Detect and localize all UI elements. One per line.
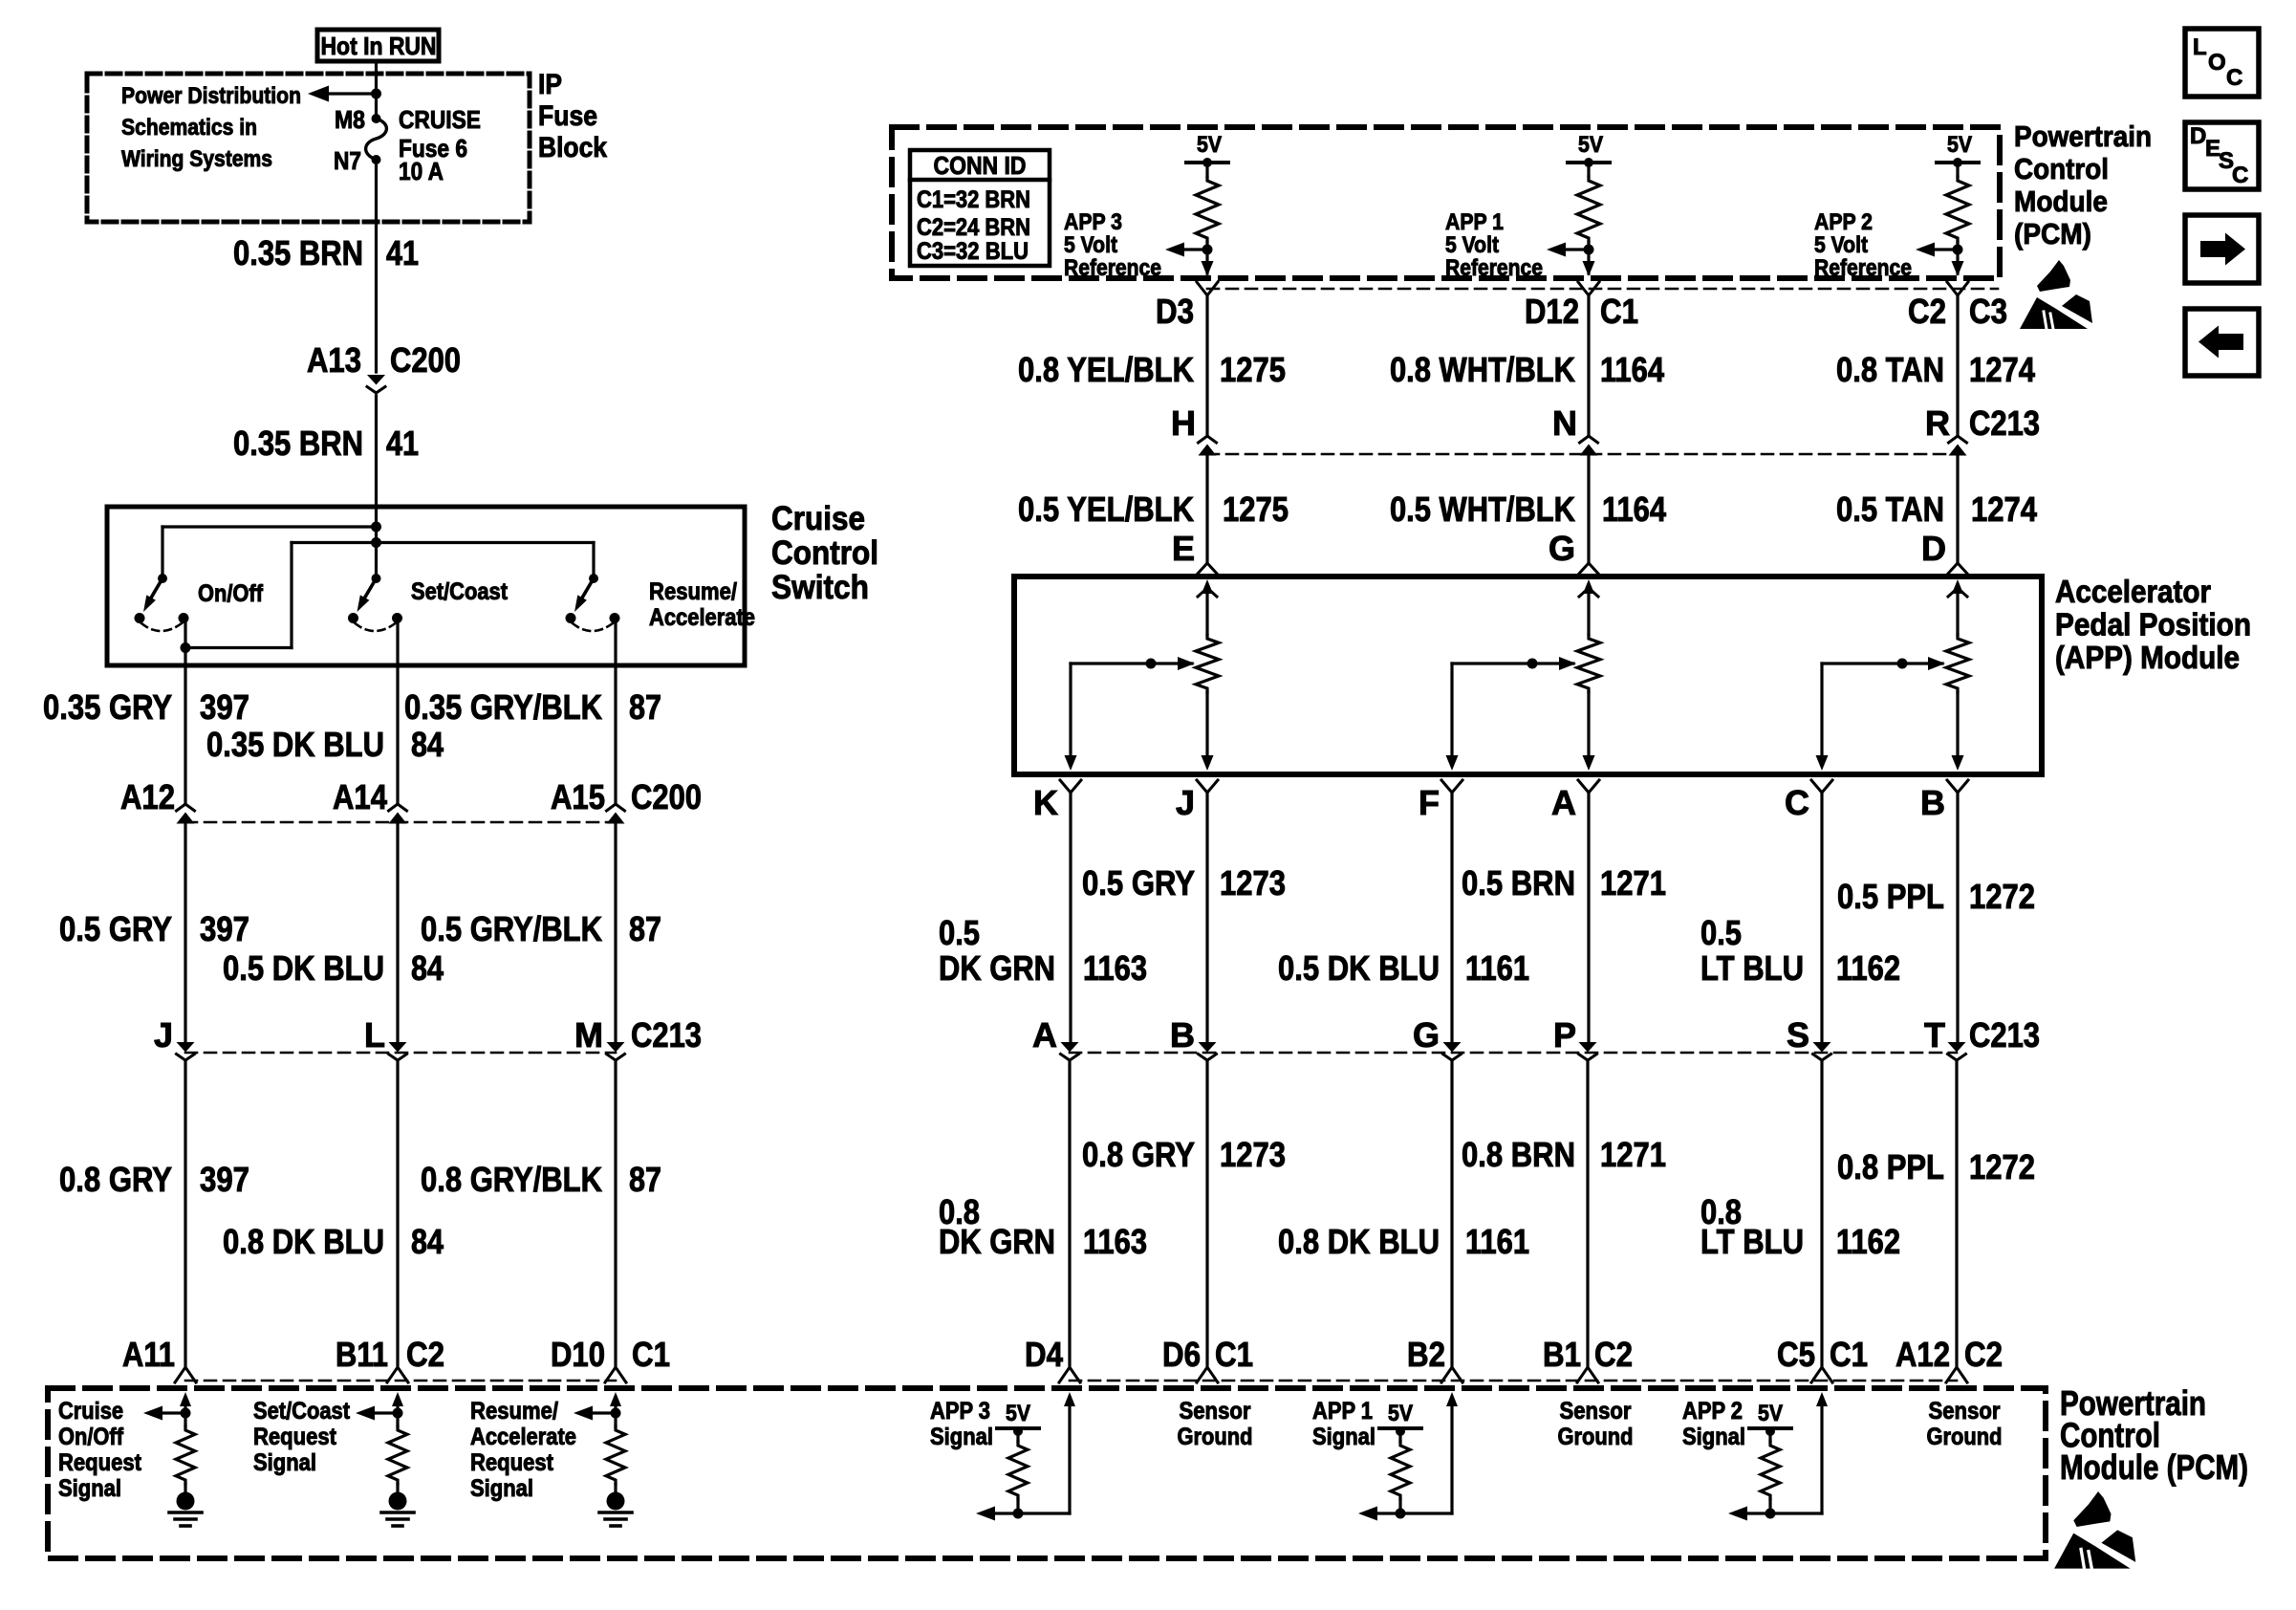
- wire APP 2 reference to pin: [1956, 250, 1959, 273]
- PCM pin fork at x=194: [175, 1367, 196, 1382]
- wire C2 down to R: [1956, 295, 1959, 436]
- svg-text:C: C: [1785, 783, 1809, 822]
- ESD symbol (bottom): [2054, 1491, 2135, 1569]
- PCM pin fork bottom at x=2047: [1946, 1367, 1967, 1382]
- PCM pin fork bottom at x=1906: [1811, 1367, 1832, 1382]
- svg-text:S: S: [1787, 1015, 1809, 1055]
- wire APP 1 reference to pin: [1587, 250, 1590, 273]
- node request signal at x=416: [393, 1408, 403, 1419]
- svg-text:Ground: Ground: [1178, 1424, 1253, 1450]
- connector C213 bottom symbol at x=1263: [1199, 1042, 1217, 1053]
- APP pin fork top at x=1263: [1197, 563, 1218, 575]
- potentiometer APP1 wiper arrow: [1452, 662, 1573, 664]
- wire APP 3 signal horizontal: [989, 1512, 1070, 1514]
- svg-text:Resume/: Resume/: [649, 578, 737, 605]
- potentiometer APP3 lower wire: [1205, 692, 1208, 757]
- svg-text:A15: A15: [551, 777, 605, 816]
- Powertrain Control Module dashed box (bottom): [48, 1388, 2046, 1558]
- svg-text:Signal: Signal: [470, 1475, 533, 1502]
- svg-text:0.5 YEL/BLK: 0.5 YEL/BLK: [1018, 490, 1194, 529]
- svg-text:Switch: Switch: [771, 569, 869, 606]
- svg-text:DK GRN: DK GRN: [939, 1222, 1055, 1261]
- junction node feed to On/Off: [371, 522, 381, 533]
- svg-text:Control: Control: [2014, 152, 2109, 185]
- svg-text:1274: 1274: [1971, 490, 2037, 529]
- svg-text:H: H: [1171, 403, 1196, 443]
- svg-text:0.8 YEL/BLK: 0.8 YEL/BLK: [1018, 350, 1194, 389]
- svg-text:87: 87: [629, 687, 661, 727]
- svg-text:A13: A13: [307, 340, 361, 380]
- svg-text:Sensor: Sensor: [1929, 1398, 2001, 1425]
- connector C213 bottom symbol at x=1906: [1813, 1042, 1831, 1053]
- svg-text:1274: 1274: [1969, 350, 2035, 389]
- svg-text:5V: 5V: [1197, 132, 1222, 158]
- svg-text:L: L: [2193, 34, 2207, 60]
- svg-text:0.35 GRY: 0.35 GRY: [43, 687, 172, 727]
- resistor APP 1 5V reference pull-up: [1587, 163, 1590, 177]
- potentiometer APP1 input arrow: [1583, 579, 1594, 594]
- DESC nav box: [2185, 122, 2259, 189]
- svg-text:0.8 PPL: 0.8 PPL: [1837, 1147, 1944, 1186]
- svg-text:C2: C2: [1908, 292, 1946, 331]
- arrow APP 2 reference to internal: [1929, 248, 1958, 250]
- svg-text:Sensor: Sensor: [1560, 1398, 1632, 1425]
- svg-text:Resume/: Resume/: [470, 1398, 558, 1425]
- potentiometer APP2 resistor element: [1946, 635, 1969, 692]
- svg-text:5V: 5V: [1947, 132, 1972, 158]
- arrow APP 1 reference to internal: [1560, 248, 1589, 250]
- svg-text:5V: 5V: [1388, 1401, 1413, 1426]
- svg-text:M: M: [574, 1015, 603, 1055]
- wire APP 3 reference to pin: [1205, 250, 1208, 273]
- svg-text:84: 84: [411, 948, 444, 988]
- svg-text:1163: 1163: [1083, 948, 1147, 988]
- node APP 2 signal: [1765, 1509, 1776, 1519]
- node APP 1 reference: [1584, 245, 1594, 255]
- svg-text:1271: 1271: [1600, 863, 1666, 903]
- ground at x=416: [389, 1492, 407, 1511]
- PCM pin fork bottom at x=1519: [1441, 1367, 1462, 1382]
- wire On/Off output loop: [184, 646, 292, 649]
- svg-text:Reference: Reference: [1064, 255, 1161, 281]
- svg-text:1162: 1162: [1836, 1222, 1900, 1261]
- svg-text:(APP) Module: (APP) Module: [2055, 640, 2240, 675]
- node on feed wire: [371, 89, 381, 99]
- potentiometer APP2 input arrow: [1952, 579, 1963, 594]
- wire feed into switch box: [375, 507, 378, 578]
- arrow request signal at x=194: [157, 1411, 185, 1414]
- svg-text:N: N: [1552, 403, 1577, 443]
- svg-text:L: L: [364, 1015, 385, 1055]
- switch Set/Coast pivot: [372, 574, 381, 583]
- wire N to G: [1587, 455, 1590, 562]
- svg-text:Sensor: Sensor: [1180, 1398, 1251, 1425]
- connector C200 row dashed line: [185, 821, 616, 824]
- connector C213 row dashed line (left): [185, 1052, 616, 1055]
- svg-text:1275: 1275: [1220, 350, 1286, 389]
- svg-text:0.5 DK BLU: 0.5 DK BLU: [223, 948, 384, 988]
- svg-text:D4: D4: [1025, 1335, 1063, 1374]
- svg-text:41: 41: [386, 424, 419, 463]
- svg-text:1163: 1163: [1083, 1222, 1147, 1261]
- resistor APP 3 pull-up: [1008, 1442, 1028, 1499]
- switch On/Off pivot: [158, 574, 167, 583]
- svg-text:0.5 PPL: 0.5 PPL: [1837, 877, 1944, 916]
- junction node feed to Set/Coast and Resume: [371, 537, 381, 548]
- svg-text:LT BLU: LT BLU: [1700, 948, 1804, 988]
- svg-text:Signal: Signal: [253, 1449, 316, 1476]
- svg-text:0.8 GRY: 0.8 GRY: [59, 1160, 172, 1199]
- svg-text:APP 2: APP 2: [1682, 1398, 1743, 1425]
- wire into PCM at x=416: [392, 1392, 403, 1406]
- svg-text:C: C: [2226, 65, 2242, 91]
- wire into PCM at x=194: [180, 1392, 191, 1406]
- node request signal at x=194: [181, 1408, 191, 1419]
- svg-text:1161: 1161: [1465, 1222, 1529, 1261]
- svg-text:Pedal Position: Pedal Position: [2055, 607, 2251, 642]
- svg-text:Signal: Signal: [930, 1424, 993, 1450]
- svg-text:Control: Control: [771, 534, 878, 572]
- resistor to ground at x=194: [176, 1426, 195, 1484]
- svg-text:0.8 WHT/BLK: 0.8 WHT/BLK: [1390, 350, 1575, 389]
- svg-text:C1: C1: [632, 1335, 670, 1374]
- svg-text:B11: B11: [336, 1335, 388, 1374]
- switch On/Off contacts: [135, 613, 145, 623]
- svg-text:T: T: [1924, 1015, 1945, 1055]
- wire APP output down at x=1906: [1820, 793, 1823, 1045]
- svg-text:5 Volt: 5 Volt: [1445, 232, 1499, 258]
- PCM pin fork bottom at x=1119: [1059, 1367, 1080, 1382]
- resistor APP 3 5V reference pull-up: [1205, 163, 1208, 177]
- svg-text:G: G: [1413, 1015, 1440, 1055]
- ESD symbol (top): [2020, 260, 2092, 329]
- PCM bottom edge pin dotted line: [1207, 288, 1998, 291]
- svg-text:1273: 1273: [1220, 1135, 1286, 1174]
- svg-text:0.5 GRY/BLK: 0.5 GRY/BLK: [421, 909, 602, 948]
- 5V supply bar (APP 3): [1186, 161, 1228, 164]
- PCM pin fork at x=416: [387, 1367, 408, 1382]
- svg-text:Wiring Systems: Wiring Systems: [121, 146, 272, 172]
- connector C213 row symbol at x=194: [177, 1042, 195, 1053]
- svg-text:Ground: Ground: [1927, 1424, 2003, 1450]
- svg-text:D: D: [1921, 529, 1946, 568]
- resistor APP 1 pull-up: [1391, 1442, 1410, 1499]
- APP module output fork APP1 low: [1578, 780, 1599, 793]
- potentiometer APP3 wiper node: [1146, 659, 1157, 669]
- svg-text:Request: Request: [58, 1449, 142, 1476]
- svg-text:CONN ID: CONN ID: [934, 151, 1027, 180]
- svg-text:0.8 BRN: 0.8 BRN: [1462, 1135, 1575, 1174]
- svg-text:0.8 DK BLU: 0.8 DK BLU: [223, 1222, 384, 1261]
- svg-text:1271: 1271: [1600, 1135, 1666, 1174]
- 5V bar APP 1: [1379, 1426, 1421, 1430]
- node APP 1 signal: [1396, 1509, 1406, 1519]
- svg-text:D12: D12: [1525, 292, 1579, 331]
- svg-text:C2: C2: [406, 1335, 444, 1374]
- right arrow nav box: [2185, 215, 2259, 283]
- svg-text:0.5 TAN: 0.5 TAN: [1836, 490, 1944, 529]
- switch Set/Coast arm: [364, 578, 377, 599]
- svg-text:Request: Request: [470, 1449, 554, 1476]
- svg-text:B1: B1: [1543, 1335, 1581, 1374]
- svg-text:Reference: Reference: [1445, 255, 1543, 281]
- svg-text:M8: M8: [335, 105, 365, 134]
- svg-text:C: C: [2232, 163, 2248, 188]
- wire APP 1 signal horizontal: [1372, 1512, 1452, 1514]
- connector C213 top symbol at x=1662: [1580, 436, 1598, 443]
- resistor APP 2 5V reference pull-up: [1956, 163, 1959, 177]
- 5V supply bar (APP 2): [1937, 161, 1979, 164]
- svg-text:0.35 BRN: 0.35 BRN: [233, 233, 363, 272]
- resistor APP 2 pull-up: [1761, 1442, 1780, 1499]
- PCM pin fork bottom at x=1661: [1577, 1367, 1598, 1382]
- svg-text:A: A: [1032, 1015, 1057, 1055]
- wire below C213 at x=1263: [1205, 1060, 1208, 1365]
- resistor to ground at x=416: [388, 1426, 407, 1484]
- wire below C213 at x=1906: [1820, 1060, 1823, 1365]
- connector C213 bottom symbol at x=1519: [1443, 1042, 1462, 1053]
- APP module output fork APP2 low: [1947, 780, 1968, 793]
- node APP 2 reference: [1953, 245, 1963, 255]
- switch On/Off dashed travel arc: [141, 623, 182, 631]
- svg-text:Accelerate: Accelerate: [649, 604, 755, 631]
- svg-text:C213: C213: [1969, 1015, 2040, 1055]
- wire below C213 at x=1119: [1068, 1060, 1071, 1365]
- wire APP output down at x=1519: [1450, 793, 1453, 1045]
- CONN ID table box: [910, 150, 1050, 266]
- resistor to ground at x=644: [606, 1426, 625, 1484]
- arrow to Power Distribution Schematics: [321, 92, 377, 95]
- wire below C213 at x=1661: [1586, 1060, 1589, 1365]
- svg-text:0.8 DK BLU: 0.8 DK BLU: [1278, 1222, 1440, 1261]
- APP pin fork top at x=2048: [1947, 563, 1968, 575]
- svg-text:B2: B2: [1407, 1335, 1445, 1374]
- connector C213 bottom symbol at x=1119: [1061, 1042, 1079, 1053]
- svg-text:APP 2: APP 2: [1814, 209, 1873, 235]
- svg-text:APP 3: APP 3: [930, 1398, 990, 1425]
- svg-text:C2: C2: [1964, 1335, 2003, 1374]
- svg-text:1161: 1161: [1465, 948, 1529, 988]
- svg-text:Block: Block: [538, 132, 607, 163]
- svg-text:C5: C5: [1777, 1335, 1815, 1374]
- svg-text:Accelerate: Accelerate: [470, 1424, 576, 1450]
- node APP 3 signal: [1013, 1509, 1024, 1519]
- svg-text:CRUISE: CRUISE: [399, 105, 481, 134]
- wire H to E: [1205, 455, 1208, 562]
- ground at x=644: [607, 1492, 625, 1511]
- svg-text:Signal: Signal: [58, 1475, 121, 1502]
- svg-text:84: 84: [411, 725, 444, 764]
- potentiometer APP1 resistor element: [1577, 635, 1600, 692]
- svg-text:F: F: [1419, 783, 1440, 822]
- svg-text:87: 87: [629, 1160, 661, 1199]
- fuse CRUISE Fuse 6 10A: [372, 114, 381, 123]
- svg-text:397: 397: [200, 909, 249, 948]
- svg-text:Module: Module: [2014, 185, 2108, 218]
- svg-text:C213: C213: [1969, 403, 2040, 443]
- svg-text:397: 397: [200, 1160, 249, 1199]
- svg-text:J: J: [1176, 783, 1195, 822]
- wire J down: [184, 1060, 186, 1365]
- wire A14 to L: [396, 823, 399, 1045]
- svg-text:D3: D3: [1156, 292, 1194, 331]
- connector C213 bottom dashed line: [1070, 1052, 1957, 1055]
- switch Set/Coast dashed travel arc: [356, 623, 396, 631]
- 5V bar APP 2: [1749, 1426, 1791, 1430]
- svg-text:Module (PCM): Module (PCM): [2060, 1447, 2248, 1487]
- switch Resume/Accelerate arm: [581, 578, 594, 599]
- svg-text:0.5 GRY: 0.5 GRY: [59, 909, 172, 948]
- wire A15 to M: [614, 823, 617, 1045]
- svg-text:P: P: [1553, 1015, 1576, 1055]
- svg-text:K: K: [1033, 783, 1058, 822]
- svg-text:A: A: [1551, 783, 1576, 822]
- svg-text:C1=32 BRN: C1=32 BRN: [917, 186, 1030, 213]
- svg-text:C1: C1: [1600, 292, 1638, 331]
- connector C213 top symbol at x=2048: [1949, 436, 1967, 443]
- svg-text:0.5 GRY: 0.5 GRY: [1082, 863, 1195, 903]
- svg-text:Schematics in: Schematics in: [121, 115, 257, 141]
- wire below C213 at x=1519: [1450, 1060, 1453, 1365]
- wire APP output down at x=2048: [1956, 793, 1959, 1045]
- connector C213 row symbol at x=644: [607, 1042, 625, 1053]
- svg-text:84: 84: [411, 1222, 444, 1261]
- power label Hot In RUN box: [317, 30, 439, 61]
- svg-text:397: 397: [200, 687, 249, 727]
- PCM pin fork D3: [1197, 282, 1218, 295]
- svg-text:IP: IP: [538, 69, 562, 100]
- svg-text:10 A: 10 A: [399, 157, 444, 185]
- svg-text:LT BLU: LT BLU: [1700, 1222, 1804, 1261]
- svg-text:0.5 BRN: 0.5 BRN: [1462, 863, 1575, 903]
- svg-text:C1: C1: [1830, 1335, 1868, 1374]
- LOC nav box: [2185, 29, 2259, 97]
- svg-text:0.5 WHT/BLK: 0.5 WHT/BLK: [1390, 490, 1575, 529]
- svg-text:(PCM): (PCM): [2014, 217, 2091, 250]
- svg-text:Powertrain: Powertrain: [2014, 120, 2152, 153]
- svg-text:5 Volt: 5 Volt: [1064, 232, 1117, 258]
- svg-text:C3=32 BLU: C3=32 BLU: [917, 238, 1029, 265]
- svg-text:A12: A12: [120, 777, 175, 816]
- svg-text:0.5 DK BLU: 0.5 DK BLU: [1278, 948, 1440, 988]
- svg-text:D6: D6: [1162, 1335, 1201, 1374]
- wire M down: [614, 1060, 617, 1365]
- svg-text:5V: 5V: [1006, 1401, 1030, 1426]
- wire fuse N7 down to connector C200: [375, 160, 378, 372]
- wire D12 down to N: [1587, 295, 1590, 436]
- svg-text:0.35 BRN: 0.35 BRN: [233, 424, 363, 463]
- wire APP 2 signal horizontal: [1742, 1512, 1822, 1514]
- svg-text:On/Off: On/Off: [198, 580, 264, 607]
- APP module output fork APP3 wiper: [1060, 780, 1081, 793]
- node APP 3 reference: [1202, 245, 1213, 255]
- svg-text:0.5: 0.5: [1700, 913, 1742, 952]
- svg-text:Reference: Reference: [1814, 255, 1912, 281]
- svg-text:DK GRN: DK GRN: [939, 948, 1055, 988]
- svg-text:C2: C2: [1594, 1335, 1633, 1374]
- svg-text:Hot In RUN: Hot In RUN: [321, 32, 437, 60]
- svg-text:Accelerator: Accelerator: [2055, 574, 2211, 609]
- svg-text:0.35 DK BLU: 0.35 DK BLU: [206, 725, 384, 764]
- APP module output fork APP3 low: [1197, 780, 1218, 793]
- svg-text:0.8 GRY/BLK: 0.8 GRY/BLK: [421, 1160, 602, 1199]
- svg-text:C3: C3: [1969, 292, 2007, 331]
- wire below C213 at x=2047: [1955, 1060, 1958, 1365]
- connector C200 row symbol at x=194: [177, 804, 195, 811]
- PCM pin fork bottom at x=1263: [1197, 1367, 1218, 1382]
- IP Fuse Block dashed box: [87, 74, 530, 222]
- potentiometer APP2 wiper node: [1897, 659, 1908, 669]
- svg-text:G: G: [1549, 529, 1575, 568]
- wire APP 3 signal into PCM: [1064, 1392, 1075, 1406]
- svg-text:Signal: Signal: [1312, 1424, 1375, 1450]
- svg-text:C200: C200: [390, 340, 461, 380]
- svg-text:0.5: 0.5: [939, 913, 980, 952]
- switch Resume/Accelerate dashed travel arc: [573, 623, 613, 631]
- wire into PCM at x=644: [610, 1392, 621, 1406]
- svg-text:C1: C1: [1215, 1335, 1253, 1374]
- connector C213 dashed line (right top): [1207, 453, 1958, 456]
- svg-text:Power Distribution: Power Distribution: [121, 83, 301, 109]
- svg-text:C213: C213: [631, 1015, 702, 1055]
- arrow request signal at x=416: [369, 1411, 398, 1414]
- PCM right pins dotted line: [1070, 1380, 1957, 1382]
- PCM pin fork at x=644: [605, 1367, 626, 1382]
- svg-text:E: E: [1172, 529, 1195, 568]
- svg-text:0.35 GRY/BLK: 0.35 GRY/BLK: [404, 687, 602, 727]
- svg-text:Fuse: Fuse: [538, 100, 597, 132]
- switch Set/Coast contacts: [348, 613, 358, 623]
- svg-text:5V: 5V: [1578, 132, 1603, 158]
- svg-text:APP 1: APP 1: [1445, 209, 1504, 235]
- ground at x=194: [177, 1492, 195, 1511]
- connector C200 row symbol at x=644: [607, 804, 625, 811]
- potentiometer APP3 input arrow: [1202, 579, 1213, 594]
- Accelerator Pedal Position Module box: [1014, 577, 2042, 774]
- wire APP output down at x=1120: [1069, 793, 1072, 1045]
- PCM left pins dotted line: [185, 1380, 616, 1382]
- svg-text:C2=24 BRN: C2=24 BRN: [917, 214, 1030, 241]
- potentiometer APP1 wiper wire down: [1450, 664, 1453, 757]
- svg-text:1164: 1164: [1600, 350, 1664, 389]
- wire APP output down at x=1263: [1205, 793, 1208, 1045]
- wire to On/Off switch pivot: [162, 525, 377, 528]
- PCM pin fork D12/C1: [1578, 282, 1599, 295]
- switch Resume/Accelerate pivot: [589, 574, 598, 583]
- connector C213 row symbol at x=416: [389, 1042, 407, 1053]
- APP module output fork APP1 wiper: [1441, 780, 1462, 793]
- svg-text:A12: A12: [1895, 1335, 1950, 1374]
- svg-text:Request: Request: [253, 1424, 337, 1450]
- wire APP output down at x=1662: [1587, 793, 1590, 1045]
- connector C213 top symbol at x=1263: [1199, 436, 1217, 443]
- arrow request signal at x=644: [587, 1411, 616, 1414]
- svg-text:APP 1: APP 1: [1312, 1398, 1373, 1425]
- wire A12 to J: [184, 823, 186, 1045]
- svg-text:1164: 1164: [1602, 490, 1666, 529]
- wire APP 1 signal into PCM: [1446, 1392, 1458, 1406]
- svg-text:A11: A11: [122, 1335, 175, 1374]
- svg-text:On/Off: On/Off: [58, 1424, 124, 1450]
- switch Resume/Accelerate contacts: [566, 613, 576, 623]
- svg-text:5 Volt: 5 Volt: [1814, 232, 1868, 258]
- svg-text:D10: D10: [551, 1335, 605, 1374]
- svg-text:N7: N7: [334, 146, 361, 175]
- potentiometer APP1 wiper node: [1527, 659, 1538, 669]
- svg-text:B: B: [1170, 1015, 1195, 1055]
- svg-text:Signal: Signal: [1682, 1424, 1745, 1450]
- potentiometer APP2 lower wire: [1956, 692, 1959, 757]
